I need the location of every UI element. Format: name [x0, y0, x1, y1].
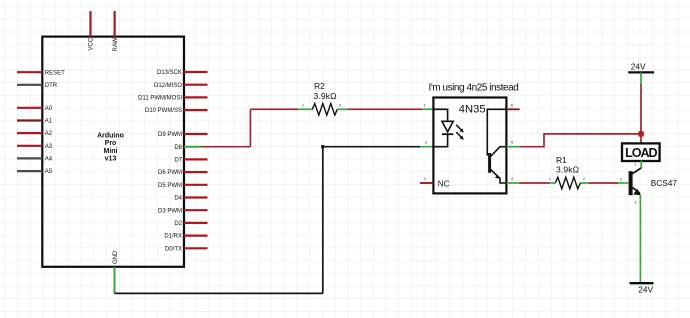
svg-text:2: 2: [583, 177, 585, 181]
svg-text:Pro: Pro: [105, 140, 117, 147]
wire net D8 vertical riser: [249, 109, 251, 146]
svg-text:1: 1: [424, 177, 426, 181]
svg-text:D1/RX: D1/RX: [164, 234, 182, 240]
pin A2: [17, 132, 42, 134]
wire R1 pin 2 stub: [580, 182, 588, 184]
node corner GND: [321, 145, 325, 149]
svg-text:A0: A0: [45, 106, 53, 112]
opto light arrow 1: [456, 125, 462, 131]
pin D13/SCK: [184, 71, 208, 73]
value label Arduino Pro Mini v13: [97, 133, 124, 163]
pin D6 PWM: [184, 171, 208, 173]
transistor Q1 emitter line: [633, 188, 640, 194]
opto LED triangle: [442, 121, 453, 132]
pin RAW: [113, 11, 115, 37]
transistor Q1 collector line: [632, 168, 641, 174]
svg-text:D7: D7: [174, 158, 182, 164]
wire net GND stub from Arduino: [114, 267, 116, 293]
svg-text:3: 3: [635, 201, 637, 205]
svg-text:A5: A5: [45, 169, 53, 175]
wire net opto collector to riser: [519, 134, 641, 147]
svg-text:NC: NC: [438, 179, 450, 188]
svg-text:3.9kΩ: 3.9kΩ: [556, 164, 579, 174]
svg-text:A3: A3: [45, 144, 53, 150]
left pin name labels: [45, 70, 65, 175]
opto LED cathode bar: [442, 133, 453, 135]
opto light arrow 2: [456, 132, 462, 138]
svg-text:24V: 24V: [631, 62, 646, 72]
optocoupler U2 body: [433, 98, 506, 194]
svg-text:4N35: 4N35: [459, 104, 486, 116]
wire net GND to optocoupler cathode: [323, 146, 420, 148]
pin D12/MISO: [184, 84, 208, 86]
svg-text:A4: A4: [45, 157, 53, 163]
svg-text:I'm using 4n25 instead: I'm using 4n25 instead: [429, 82, 519, 93]
node junction 24V/collector: [638, 131, 644, 137]
pin D5 PWM: [184, 184, 208, 186]
wire net D8 to R2 (green stub segment): [201, 146, 250, 148]
pin A0: [17, 107, 42, 109]
svg-text:D9 PWM: D9 PWM: [158, 132, 182, 138]
svg-text:D10 PWM/SS: D10 PWM/SS: [145, 108, 182, 114]
wire net GND bottom horizontal run: [115, 292, 323, 294]
svg-text:GND: GND: [113, 250, 119, 264]
right pin name labels: [138, 70, 183, 252]
pin VCC: [89, 11, 91, 37]
pin D7: [184, 158, 208, 160]
svg-text:D6 PWM: D6 PWM: [158, 170, 182, 176]
pin D8: [184, 146, 201, 148]
svg-text:1: 1: [302, 104, 304, 108]
pin 5 stub of U2: [506, 146, 519, 148]
wire net 24V down to junction: [640, 84, 642, 134]
svg-text:1: 1: [424, 104, 426, 108]
wire net R2 to optocoupler anode: [348, 108, 423, 110]
wire net GND vertical riser: [322, 147, 324, 294]
pin A5: [17, 170, 42, 172]
svg-text:1: 1: [635, 163, 637, 167]
svg-text:1: 1: [549, 177, 551, 181]
supply symbol 24V bottom bar: [630, 282, 654, 284]
pin D2: [184, 222, 208, 224]
pin D9 PWM: [184, 133, 208, 135]
svg-text:6: 6: [511, 104, 513, 108]
pin DTR: [17, 84, 42, 86]
svg-text:D5 PWM: D5 PWM: [158, 183, 182, 189]
svg-text:RESET: RESET: [45, 70, 65, 76]
pin D4: [184, 196, 208, 198]
svg-text:RAW: RAW: [113, 37, 119, 51]
pin 6 of U2: [506, 108, 519, 110]
pin D10 PWM/SS: [184, 109, 208, 111]
pin D0/TX: [184, 247, 208, 249]
top pin name labels: [89, 37, 119, 51]
opto LED anode wire: [433, 109, 447, 121]
svg-text:D12/MISO: D12/MISO: [154, 83, 182, 89]
svg-text:5: 5: [511, 141, 513, 145]
svg-text:LOAD: LOAD: [625, 146, 657, 160]
pin RESET: [17, 71, 42, 73]
svg-text:A1: A1: [45, 119, 53, 125]
wire net emitter to 24V bottom: [639, 195, 641, 283]
resistor R2: [312, 104, 337, 116]
svg-text:2: 2: [339, 104, 341, 108]
opto phototransistor collector: [491, 147, 507, 157]
svg-text:D2: D2: [174, 221, 182, 227]
wire opto pin 1 stub: [423, 108, 434, 110]
wire R2 pin 2 stub: [337, 108, 347, 110]
pin A3: [17, 145, 42, 147]
pin A4: [17, 157, 42, 159]
wire net junction to LOAD: [640, 134, 642, 143]
transistor Q1 emitter arrowhead: [633, 189, 641, 196]
svg-text:v13: v13: [105, 155, 117, 162]
IC body U1 Arduino Pro Mini: [42, 37, 184, 267]
svg-text:D8: D8: [174, 145, 182, 151]
wire net LOAD to transistor collector: [640, 161, 642, 169]
svg-text:3.9kΩ: 3.9kΩ: [314, 91, 337, 101]
wire R1 to base green stub: [618, 182, 629, 184]
svg-text:24V: 24V: [638, 285, 653, 295]
pin D3 PWM: [184, 209, 208, 211]
svg-text:R2: R2: [314, 81, 325, 91]
wire net D8 to R2 pin 1: [250, 108, 298, 110]
resistor R1: [555, 177, 580, 189]
svg-text:2: 2: [425, 141, 427, 145]
opto emitter arrowhead: [495, 175, 500, 179]
pin 4 stub of U2: [506, 182, 519, 184]
opto phototransistor base wire: [487, 109, 506, 155]
pin D11 PWM/MOSI: [184, 96, 208, 98]
wire R2 pin 1 stub: [298, 108, 312, 110]
svg-text:D13/SCK: D13/SCK: [157, 70, 182, 76]
opto phototransistor base bar: [488, 153, 491, 173]
svg-text:2: 2: [620, 178, 622, 182]
wire net opto pin4 to R1: [519, 182, 550, 184]
wire supply stub green: [640, 72, 642, 84]
svg-text:D4: D4: [174, 196, 182, 202]
wire R1 pin 1 stub: [550, 182, 556, 184]
load component LOAD box: [622, 143, 660, 161]
transistor Q1 base bar: [629, 171, 633, 195]
opto phototransistor emitter: [491, 169, 507, 183]
wire opto pin 2 stub: [420, 146, 433, 148]
pin NC of U2: [420, 182, 433, 184]
pin A1: [17, 119, 42, 121]
supply symbol 24V top bar: [628, 71, 654, 73]
svg-text:DTR: DTR: [45, 83, 58, 89]
opto LED cathode wire: [433, 134, 447, 147]
pin D1/RX: [184, 235, 208, 237]
svg-text:Arduino: Arduino: [97, 133, 124, 140]
svg-text:D0/TX: D0/TX: [165, 246, 182, 252]
wire net R1 to base: [588, 182, 618, 184]
svg-text:D3 PWM: D3 PWM: [158, 208, 182, 214]
svg-text:4: 4: [511, 177, 513, 181]
svg-text:A2: A2: [45, 131, 53, 137]
svg-text:Mini: Mini: [104, 148, 118, 155]
svg-text:D11 PWM/MOSI: D11 PWM/MOSI: [138, 96, 182, 102]
svg-text:BCS47: BCS47: [651, 178, 678, 188]
svg-text:VCC: VCC: [89, 37, 95, 50]
